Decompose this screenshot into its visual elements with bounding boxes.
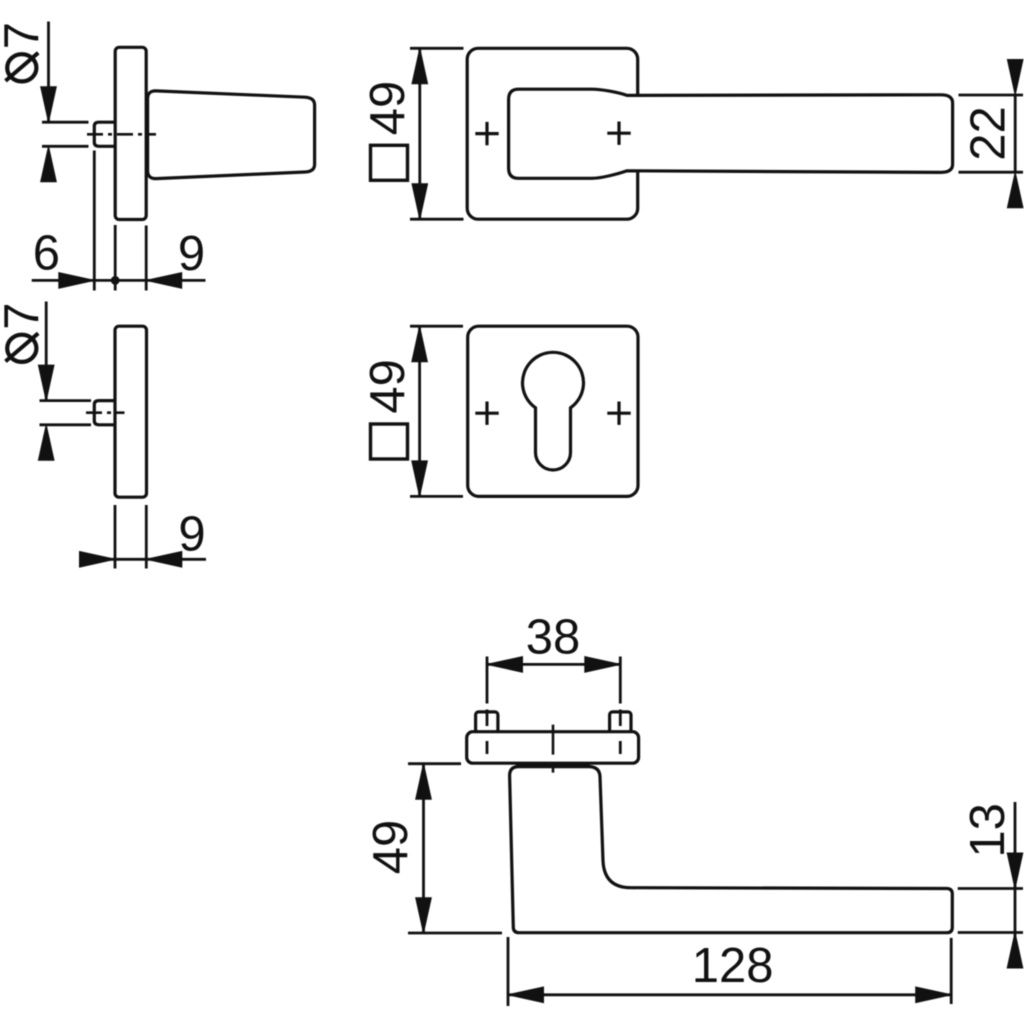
svg-text:7: 7 [0,302,49,329]
svg-text:6: 6 [33,227,60,281]
svg-text:9: 9 [178,227,205,281]
svg-text:49: 49 [361,81,415,136]
svg-text:38: 38 [526,611,581,665]
svg-text:49: 49 [364,820,418,875]
svg-text:128: 128 [692,939,774,993]
svg-text:49: 49 [361,359,415,414]
svg-text:7: 7 [0,22,49,49]
svg-text:9: 9 [178,508,205,562]
svg-text:13: 13 [961,803,1015,858]
svg-text:22: 22 [962,106,1016,161]
